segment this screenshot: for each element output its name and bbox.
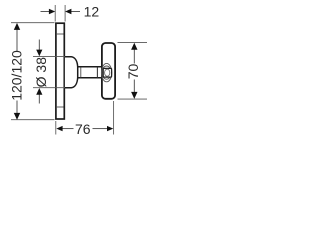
capacitor flare: handle base cone <box>65 57 78 88</box>
wire dim12 line R <box>71 11 81 13</box>
transistor stem: handle stem cylinder <box>78 67 102 78</box>
node dim120 arrow up <box>14 23 20 30</box>
node dim120 arrow down <box>14 113 20 120</box>
wire stem end line <box>96 67 98 77</box>
node dim70 arrow down <box>131 92 137 99</box>
node dim70 arrow up <box>131 43 137 50</box>
node ext120T <box>11 22 55 24</box>
svg-text:12: 12 <box>84 4 100 20</box>
node ext38T (crosses plate) <box>33 56 65 58</box>
node ext70B <box>118 98 148 100</box>
svg-text:120/120: 120/120 <box>8 50 24 101</box>
node ext12L <box>54 5 56 22</box>
node hub outer ellipse <box>101 63 111 81</box>
resistor plate: escutcheon 120x120 side view <box>56 23 64 119</box>
svg-text:76: 76 <box>75 121 91 137</box>
svg-text:Ø 38: Ø 38 <box>33 57 49 88</box>
node hub inner ellipse <box>105 69 110 76</box>
svg-text:70: 70 <box>125 64 141 80</box>
node ext12R <box>64 5 66 22</box>
node dim12 arrow R <box>65 9 71 14</box>
node dim76 arrow left <box>56 126 62 131</box>
wire dim70 line top seg <box>133 49 135 64</box>
wire dim38 tail top <box>38 40 40 51</box>
wire plate inner top <box>57 33 64 35</box>
node ext70T <box>118 42 148 44</box>
wire dim120 line bottom seg <box>16 101 18 115</box>
wire <box>11 5 147 135</box>
node ext76R <box>113 101 115 135</box>
op-amp disc: knob disc side view, dia 70 <box>102 43 115 99</box>
node dim12 arrow L <box>49 9 55 14</box>
node ext76L <box>55 121 57 135</box>
node dim38 arrow down <box>36 50 42 57</box>
node dim38 arrow up <box>36 88 42 95</box>
wire stem joint line <box>80 67 82 77</box>
node ext120B <box>11 119 55 121</box>
node dim76 arrow right <box>107 126 113 131</box>
node hub mid ellipse <box>102 66 111 79</box>
wire dim38 tail bottom <box>38 94 40 104</box>
wire dim120 line top seg <box>16 29 18 52</box>
node hub barrel <box>103 68 111 77</box>
wire dim76 line R <box>93 128 108 130</box>
wire dim12 line L <box>41 11 51 13</box>
wire dim76 line L <box>62 128 74 130</box>
wire plate inner bottom <box>57 106 64 108</box>
node ext38B (crosses plate) <box>33 87 65 89</box>
wire dim70 line bottom seg <box>133 80 135 94</box>
